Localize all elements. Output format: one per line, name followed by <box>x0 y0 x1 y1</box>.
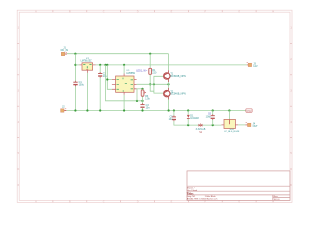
wire DIS link vertical <box>136 89 138 101</box>
svg-text:C: C <box>103 10 105 13</box>
svg-text:D: D <box>137 201 139 204</box>
jumper on lower rail <box>199 123 203 126</box>
svg-text:ASDA-TWS C:\blink\flasher.sch: ASDA-TWS C:\blink\flasher.sch <box>187 198 218 201</box>
buzzer SG1 label <box>224 129 240 133</box>
svg-text:W-1.0: W-1.0 <box>274 199 281 201</box>
svg-text:1.5k: 1.5k <box>145 97 150 100</box>
voltage regulator IC2 <box>80 63 96 73</box>
resistor R1 <box>149 68 152 74</box>
transistor Q1 label <box>170 73 186 78</box>
wire Q1 emitter to Q2 collector <box>168 82 170 88</box>
resistor R3 <box>141 89 145 104</box>
svg-text:A: A <box>35 10 37 13</box>
svg-text:E: E <box>171 10 173 13</box>
svg-text:BC546B_NPN: BC546B_NPN <box>170 93 186 96</box>
connector J3 label <box>253 63 258 69</box>
title block text <box>187 186 280 201</box>
connector J3 pad <box>247 61 248 63</box>
node R3 top <box>141 88 143 90</box>
drawing frame <box>17 10 292 202</box>
svg-text:G: G <box>238 10 240 13</box>
wire THR pin to R3 <box>137 88 143 90</box>
svg-text:LP_BLS_RG28: LP_BLS_RG28 <box>224 131 240 133</box>
svg-text:100n: 100n <box>206 115 212 118</box>
wire C3 to ground rail <box>142 108 144 111</box>
svg-text:220: 220 <box>152 72 157 75</box>
wire regulator ground down <box>86 73 88 111</box>
svg-text:LM78L05Z: LM78L05Z <box>81 60 93 62</box>
transistor Q2 <box>164 88 170 100</box>
frame column ticks top/bottom <box>53 10 256 202</box>
node output junctions <box>153 83 155 85</box>
svg-text:C: C <box>103 201 105 204</box>
wire base bus <box>154 76 164 93</box>
capacitor C1 <box>73 81 77 87</box>
svg-text:F: F <box>205 10 207 13</box>
svg-text:G: G <box>238 201 240 204</box>
svg-text:100u: 100u <box>79 84 85 87</box>
frame row ticks left/right <box>17 43 292 169</box>
node R1 output junction <box>149 83 151 85</box>
diode D1 <box>187 111 190 126</box>
capacitor C3 label <box>146 104 151 110</box>
node top rail junction at C1 <box>74 53 76 55</box>
capacitor C2 label <box>103 73 108 79</box>
capacitor C6 label <box>206 112 212 118</box>
capacitor C1 label <box>79 81 85 87</box>
node reg input tee <box>74 64 76 66</box>
capacitor C5 label <box>169 116 174 122</box>
svg-text:10n: 10n <box>146 107 151 110</box>
title block <box>187 171 290 201</box>
svg-text:LED1_W •: LED1_W • <box>136 69 147 72</box>
svg-text:D: D <box>137 10 139 13</box>
capacitor C2 <box>98 72 102 78</box>
connector J4 pad <box>246 122 247 124</box>
connector J4 label <box>253 122 259 128</box>
wire R1 bottom lead <box>150 75 154 92</box>
wire 5V rail <box>96 64 247 66</box>
node lower rail junctions <box>187 124 189 126</box>
wire Q2 emitter down <box>168 99 170 110</box>
net label GND flag <box>246 109 252 113</box>
wire input vertical <box>74 54 76 111</box>
transistor Q2 label <box>170 90 186 95</box>
svg-text:10u: 10u <box>169 118 174 121</box>
buzzer SG1 <box>221 119 238 128</box>
svg-text:S1: S1 <box>199 131 203 134</box>
frame index letters <box>18 10 293 203</box>
capacitor C6 <box>211 111 215 126</box>
capacitor C5 polarized <box>172 115 176 121</box>
wire C2 vertical <box>99 65 101 111</box>
jumper label <box>196 128 206 134</box>
wire buzzer top feed <box>228 111 230 120</box>
wire R1 branch from top rail <box>149 54 151 68</box>
connector J2 label <box>62 106 65 109</box>
wire CV branch <box>106 65 143 101</box>
svg-text:12V: 12V <box>253 65 258 68</box>
svg-text:GND: GND <box>247 111 252 113</box>
regulator IC2 label <box>81 58 93 63</box>
node 5V junctions <box>99 64 101 66</box>
wire ground rail <box>67 110 246 112</box>
wire +12V top rail <box>67 53 169 55</box>
wire 555 VCC down <box>123 65 125 74</box>
resistor R3 label <box>145 95 150 101</box>
connector J1 label <box>61 46 69 52</box>
timer IC1 label <box>126 70 135 75</box>
svg-text:BC546B_NPN: BC546B_NPN <box>170 75 186 78</box>
node CV wire junctions <box>136 100 138 102</box>
svg-text:1N4148: 1N4148 <box>190 117 199 120</box>
node ground junctions <box>74 109 76 111</box>
connector J1 pad <box>66 51 67 53</box>
wire reg input stub <box>75 64 79 66</box>
connector J2 pad <box>65 108 66 110</box>
wire 555 GND down <box>123 95 125 111</box>
svg-text:LM555N: LM555N <box>126 73 135 75</box>
svg-text:IC1: IC1 <box>126 70 130 72</box>
node 555 left feed tee <box>106 78 108 80</box>
transistor Q1 <box>164 70 170 82</box>
resistor R1 label <box>152 69 157 75</box>
wire buzzer out <box>238 124 245 126</box>
svg-text:Title:: Title: <box>187 191 194 195</box>
wire C5 branch <box>174 111 222 126</box>
svg-text:H: H <box>272 10 274 13</box>
wire 555 output <box>137 83 169 85</box>
op timer IC1 NE555 <box>112 74 137 95</box>
svg-text:H: H <box>272 201 274 204</box>
wire 5V rail end pin <box>247 64 248 66</box>
wire 555 left feed <box>107 65 112 89</box>
svg-text:DC_IN: DC_IN <box>61 49 69 52</box>
node top rail junction at R1 <box>149 53 151 55</box>
capacitor C3 <box>140 103 144 109</box>
svg-text:J2: J2 <box>62 106 65 109</box>
diode D1 label <box>190 115 199 121</box>
wire Q1 collector from rail <box>168 54 170 71</box>
svg-text:B: B <box>69 10 71 13</box>
svg-text:OUT: OUT <box>253 125 259 128</box>
